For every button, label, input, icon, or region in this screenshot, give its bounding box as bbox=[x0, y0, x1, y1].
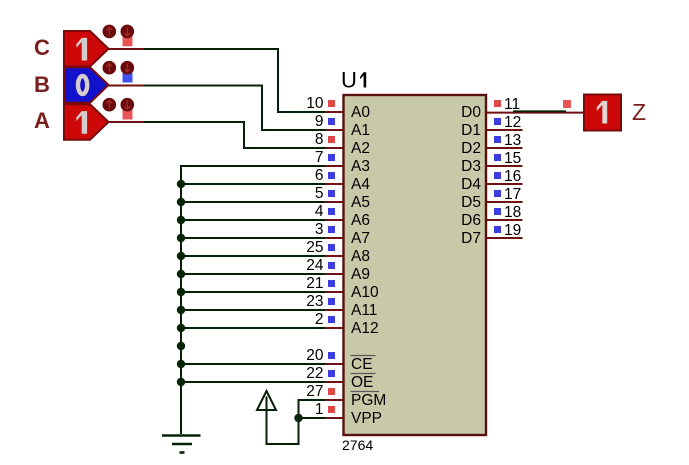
pin 7 logic-state square bbox=[328, 154, 335, 161]
svg-text:OE: OE bbox=[351, 374, 373, 391]
U1 pin 24 (A9) stub bbox=[325, 273, 343, 275]
svg-text:D1: D1 bbox=[461, 122, 481, 139]
U1 pin 23 (A11) stub bbox=[325, 309, 343, 311]
junction dot on bus at y=346 bbox=[177, 342, 185, 350]
svg-text:A11: A11 bbox=[351, 302, 377, 319]
C output state square bbox=[123, 36, 133, 46]
logic state C pin stub bbox=[108, 48, 144, 50]
wire bus to A12 bbox=[181, 327, 325, 329]
svg-text:A1: A1 bbox=[351, 122, 370, 139]
junction dot on bus at y=184 bbox=[177, 180, 185, 188]
svg-text:A4: A4 bbox=[351, 176, 370, 193]
U1 pin 7 (A3) stub bbox=[325, 165, 343, 167]
svg-text:10: 10 bbox=[306, 95, 324, 112]
wire bus to A4 bbox=[181, 183, 325, 185]
wire branch to pin 1 (VPP) bbox=[299, 417, 326, 419]
logic state toggle A body bbox=[64, 98, 134, 140]
EPROM U1 (2764) body bbox=[344, 95, 487, 435]
pin 15 logic-state square bbox=[494, 154, 501, 161]
svg-text:18: 18 bbox=[504, 204, 521, 221]
pin 11 logic-state square bbox=[494, 100, 501, 107]
svg-text:23: 23 bbox=[306, 293, 323, 310]
pin 4 logic-state square bbox=[328, 208, 335, 215]
svg-text:16: 16 bbox=[504, 168, 521, 185]
U1 pin 22 (OE) stub bbox=[325, 381, 343, 383]
svg-text:D7: D7 bbox=[461, 230, 481, 247]
wire bus to A11 bbox=[181, 309, 325, 311]
digit 1 (C state) bbox=[76, 38, 87, 61]
wire bus to A8 bbox=[181, 255, 325, 257]
wire A to U1 pin 8 (A2) bbox=[144, 122, 325, 148]
svg-text:6: 6 bbox=[315, 167, 324, 184]
svg-text:A10: A10 bbox=[351, 284, 379, 301]
svg-text:2: 2 bbox=[315, 311, 324, 328]
svg-text:21: 21 bbox=[306, 275, 323, 292]
svg-text:A: A bbox=[34, 108, 50, 133]
pin 2 logic-state square bbox=[328, 316, 335, 323]
wire U1 pin 11 (D0) to probe Z bbox=[513, 110, 566, 112]
svg-text:17: 17 bbox=[504, 186, 521, 203]
svg-text:A8: A8 bbox=[351, 248, 370, 265]
svg-text:D0: D0 bbox=[461, 104, 481, 121]
U1 pin 27 (PGM) stub bbox=[325, 399, 343, 401]
svg-text:A12: A12 bbox=[351, 320, 379, 337]
svg-text:VPP: VPP bbox=[351, 410, 382, 427]
svg-text:4: 4 bbox=[315, 203, 324, 220]
svg-text:D5: D5 bbox=[461, 194, 481, 211]
svg-text:PGM: PGM bbox=[351, 392, 386, 409]
svg-text:7: 7 bbox=[315, 149, 324, 166]
U1 pin 9 (A1) stub bbox=[325, 129, 343, 131]
svg-text:20: 20 bbox=[306, 347, 324, 364]
ground bus vertical wire with branch to pin 7 (A3) bbox=[181, 166, 325, 434]
junction dot on bus at y=220 bbox=[177, 216, 185, 224]
junction dot on bus at y=274 bbox=[177, 270, 185, 278]
pin 23 logic-state square bbox=[328, 298, 335, 305]
pin 19 logic-state square bbox=[494, 226, 501, 233]
wire VPP supply route to pin 27 (PGM) bbox=[267, 400, 326, 444]
pin 17 logic-state square bbox=[494, 190, 501, 197]
digit 1 (A state) bbox=[76, 111, 87, 134]
wire bus to A10 bbox=[181, 291, 325, 293]
junction dot on bus at y=256 bbox=[177, 252, 185, 260]
junction dot on bus at y=364 bbox=[177, 360, 185, 368]
wire C to U1 pin 10 (A0) bbox=[144, 49, 325, 112]
svg-text:A2: A2 bbox=[351, 140, 370, 157]
svg-text:1: 1 bbox=[315, 401, 324, 418]
U1 pin 16 (D4) stub bbox=[486, 183, 523, 185]
U1 pin 3 (A7) stub bbox=[325, 237, 343, 239]
logic state toggle B body bbox=[64, 61, 134, 103]
wire bus to A7 bbox=[181, 237, 325, 239]
svg-text:Z: Z bbox=[632, 99, 646, 125]
probe Z pin state square bbox=[563, 100, 571, 108]
logic state A pin stub bbox=[108, 121, 144, 123]
pin 16 logic-state square bbox=[494, 172, 501, 179]
pin 27 logic-state square bbox=[328, 388, 335, 395]
svg-text:25: 25 bbox=[306, 239, 323, 256]
wire bus to CE bbox=[181, 363, 325, 365]
U1 pin 15 (D3) stub bbox=[486, 165, 523, 167]
U1 pin 10 (A0) stub bbox=[325, 111, 343, 113]
logic probe Z body bbox=[584, 95, 621, 131]
junction dot on bus at y=310 bbox=[177, 306, 185, 314]
junction dot on bus at y=292 bbox=[177, 288, 185, 296]
junction dot on bus at y=202 bbox=[177, 198, 185, 206]
svg-text:A5: A5 bbox=[351, 194, 370, 211]
U1 pin 20 (CE) stub bbox=[325, 363, 343, 365]
pin 5 logic-state square bbox=[328, 190, 335, 197]
U1 pin 6 (A4) stub bbox=[325, 183, 343, 185]
U1 pin 11 (D0) stub bbox=[486, 112, 585, 114]
svg-text:A3: A3 bbox=[351, 158, 370, 175]
U1 pin 21 (A10) stub bbox=[325, 291, 343, 293]
svg-text:19: 19 bbox=[504, 222, 521, 239]
digit 0 (B state) bbox=[78, 76, 87, 94]
svg-text:A7: A7 bbox=[351, 230, 370, 247]
svg-text:C: C bbox=[34, 35, 50, 60]
pin 13 logic-state square bbox=[494, 136, 501, 143]
pin 12 logic-state square bbox=[494, 118, 501, 125]
U1 pin 17 (D5) stub bbox=[486, 201, 523, 203]
pin 21 logic-state square bbox=[328, 280, 335, 287]
U1 pin 13 (D2) stub bbox=[486, 147, 523, 149]
wire B to U1 pin 9 (A1) bbox=[144, 86, 325, 131]
svg-text:D6: D6 bbox=[461, 212, 481, 229]
svg-text:U: U bbox=[341, 68, 357, 93]
B down button bbox=[121, 61, 135, 75]
svg-text:24: 24 bbox=[306, 257, 324, 274]
A up button bbox=[103, 98, 117, 112]
B output state square bbox=[123, 73, 133, 83]
svg-text:3: 3 bbox=[315, 221, 324, 238]
wire bus to OE bbox=[181, 381, 325, 383]
svg-text:A0: A0 bbox=[351, 104, 370, 121]
svg-text:B: B bbox=[34, 72, 50, 97]
ground symbol bbox=[162, 436, 201, 453]
svg-text:9: 9 bbox=[315, 113, 324, 130]
A output state square bbox=[123, 110, 133, 120]
junction dot on bus at y=238 bbox=[177, 234, 185, 242]
svg-text:A9: A9 bbox=[351, 266, 370, 283]
overbar on CE bbox=[351, 355, 376, 357]
wire bus to A6 bbox=[181, 219, 325, 221]
logic state B pin stub bbox=[108, 85, 144, 87]
U1 pin 18 (D6) stub bbox=[486, 219, 523, 221]
pin 9 logic-state square bbox=[328, 118, 335, 125]
pin 1 logic-state square bbox=[328, 406, 335, 413]
svg-text:22: 22 bbox=[306, 365, 323, 382]
U1 pin 25 (A8) stub bbox=[325, 255, 343, 257]
svg-text:8: 8 bbox=[315, 131, 324, 148]
wire bus to A9 bbox=[181, 273, 325, 275]
svg-text:15: 15 bbox=[504, 150, 521, 167]
junction dot at VPP branch bbox=[294, 414, 302, 422]
svg-text:27: 27 bbox=[306, 383, 323, 400]
power arrow (VPP supply terminal) bbox=[257, 391, 276, 410]
C down button bbox=[121, 25, 135, 39]
wire bus to A5 bbox=[181, 201, 325, 203]
pin 18 logic-state square bbox=[494, 208, 501, 215]
U1 pin 1 (VPP) stub bbox=[325, 417, 343, 419]
U1 pin 2 (A12) stub bbox=[325, 327, 343, 329]
svg-text:CE: CE bbox=[351, 356, 373, 373]
pin 6 logic-state square bbox=[328, 172, 335, 179]
pin 22 logic-state square bbox=[328, 370, 335, 377]
pin 3 logic-state square bbox=[328, 226, 335, 233]
junction dot on bus at y=328 bbox=[177, 324, 185, 332]
pin 24 logic-state square bbox=[328, 262, 335, 269]
logic state toggle C body bbox=[64, 25, 134, 67]
svg-text:D2: D2 bbox=[461, 140, 481, 157]
svg-text:A6: A6 bbox=[351, 212, 370, 229]
U1 pin 4 (A6) stub bbox=[325, 219, 343, 221]
U1 pin 12 (D1) stub bbox=[486, 129, 523, 131]
C up button bbox=[103, 25, 117, 39]
reference label U1 bbox=[341, 68, 366, 93]
overbar on OE bbox=[351, 373, 376, 375]
B up button bbox=[103, 61, 117, 75]
svg-text:D3: D3 bbox=[461, 158, 481, 175]
svg-text:12: 12 bbox=[504, 114, 521, 131]
pin 10 logic-state square bbox=[328, 100, 335, 107]
overbar on PGM bbox=[351, 391, 380, 393]
svg-text:D4: D4 bbox=[461, 176, 481, 193]
svg-text:13: 13 bbox=[504, 132, 521, 149]
junction dot on bus at y=382 bbox=[177, 378, 185, 386]
pin 20 logic-state square bbox=[328, 352, 335, 359]
U1 pin 19 (D7) stub bbox=[486, 237, 523, 239]
pin 8 logic-state square bbox=[328, 136, 335, 143]
svg-text:5: 5 bbox=[315, 185, 324, 202]
U1 pin 8 (A2) stub bbox=[325, 147, 343, 149]
A down button bbox=[121, 98, 135, 112]
pin 25 logic-state square bbox=[328, 244, 335, 251]
svg-text:2764: 2764 bbox=[342, 437, 373, 453]
U1 pin 5 (A5) stub bbox=[325, 201, 343, 203]
